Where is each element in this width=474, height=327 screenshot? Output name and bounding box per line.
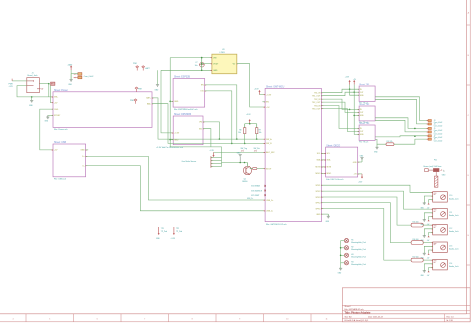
- svg-text:TP2: TP2: [176, 228, 179, 230]
- svg-text:S8050: S8050: [242, 181, 247, 183]
- junction IO0 wire: [231, 143, 233, 145]
- svg-text:IN: IN: [360, 89, 362, 91]
- sheet Power file: [54, 129, 68, 131]
- audio jack J12 body: [430, 224, 447, 234]
- svg-text:SCL: SCL: [317, 153, 321, 155]
- junction ESP32B gnd: [169, 101, 171, 103]
- svg-text:SDA: SDA: [327, 159, 331, 162]
- title block kicad: [345, 319, 369, 322]
- junction R9: [256, 138, 258, 140]
- svg-text:File: Power.sch: File: Power.sch: [54, 129, 68, 131]
- nc label 3: [251, 195, 259, 197]
- regulator U3 label: [220, 49, 225, 54]
- wire R8 bottom: [244, 134, 246, 144]
- svg-text:IN1: IN1: [199, 129, 202, 131]
- wire BAT+ to MCU SW1: [152, 98, 265, 139]
- svg-text:10k: 10k: [259, 132, 262, 134]
- wire TS2 out A: [375, 118, 428, 129]
- svg-text:Sheet: TS1: Sheet: TS1: [359, 83, 370, 86]
- connector J1 label: [28, 73, 38, 78]
- svg-text:J12: J12: [449, 228, 452, 230]
- audio jack J13 label: [449, 245, 458, 250]
- svg-text:11: 11: [325, 319, 328, 321]
- sheet MCU pin EN2: [262, 101, 269, 103]
- wire battery rail to regulator VIN: [170, 57, 212, 59]
- svg-text:Conn_01x02: Conn_01x02: [434, 133, 443, 135]
- svg-text:SW_Trig: SW_Trig: [241, 147, 248, 150]
- svg-text:+BATT: +BATT: [145, 67, 150, 70]
- svg-text:+3.3V: +3.3V: [171, 238, 176, 240]
- svg-text:9: 9: [239, 319, 241, 321]
- svg-text:GND: GND: [155, 90, 160, 92]
- resistor R9: [256, 124, 262, 135]
- sheet DECO pin +3.3V: [353, 173, 363, 183]
- sheet Power pin +5V: [51, 102, 59, 105]
- wire J2 to GND: [68, 74, 72, 86]
- svg-text:MISO: MISO: [327, 173, 332, 175]
- svg-text:MountingHole_Pad: MountingHole_Pad: [351, 256, 365, 259]
- sheet ESP32B pin EN: [201, 84, 207, 86]
- svg-text:+3.3V: +3.3V: [174, 133, 180, 135]
- svg-text:Rev: 1.0: Rev: 1.0: [447, 316, 454, 318]
- svg-text:GND: GND: [353, 162, 358, 164]
- svg-text:J8: J8: [434, 139, 436, 141]
- wire DRV VM down: [203, 122, 219, 139]
- svg-text:TS2_OUT: TS2_OUT: [312, 102, 321, 104]
- sheet Power name: [54, 89, 68, 92]
- svg-text:File: DECO-Lib.sch: File: DECO-Lib.sch: [326, 179, 343, 181]
- sheet TS1 outline and pins: [357, 83, 375, 104]
- sheet USB name: [54, 141, 66, 144]
- svg-text:OUT: OUT: [360, 92, 364, 94]
- audio jack J10 body: [430, 192, 447, 202]
- svg-text:Sheet: GMT-MCU: Sheet: GMT-MCU: [266, 86, 285, 89]
- svg-text:IN: IN: [360, 128, 362, 130]
- wire TS2 out B: [375, 120, 428, 132]
- svg-text:+5V: +5V: [427, 275, 430, 277]
- svg-text:Audio_Jack: Audio_Jack: [449, 265, 458, 268]
- svg-text:OUT: OUT: [360, 131, 364, 133]
- pwr flag 2: [142, 66, 150, 71]
- svg-text:+3.3V: +3.3V: [210, 150, 215, 152]
- sheet Power pin VIN: [51, 96, 60, 98]
- vertical GND bus left of sheets: [169, 58, 171, 147]
- svg-text:Sheet: /: Sheet: /: [345, 305, 352, 308]
- junction conn bus 2: [414, 135, 416, 137]
- junction J1 output: [48, 83, 50, 85]
- sheet DRV pin VM: [199, 121, 205, 123]
- svg-text:CHG: CHG: [54, 109, 59, 111]
- wire TS1 out A: [375, 97, 428, 121]
- junction at GND stub: [31, 96, 33, 98]
- sheet USB pin D+: [82, 156, 88, 159]
- wire +3.3V vertical rail: [350, 85, 360, 96]
- junction +5V at TS2: [353, 115, 355, 117]
- svg-text:Title: Photon Arbalete: Title: Photon Arbalete: [345, 311, 371, 314]
- audio jack J14 pwr loop: [427, 268, 433, 278]
- buzzer PZ1 resonator hatched: [435, 172, 438, 187]
- svg-text:R17 100: R17 100: [413, 256, 419, 258]
- sheet MCU pin MIC: [263, 168, 273, 170]
- svg-text:L7805: L7805: [220, 52, 225, 54]
- svg-text:R16 100: R16 100: [413, 239, 419, 241]
- audio jack J12 label: [449, 228, 458, 233]
- svg-text:MountingHole_Pad: MountingHole_Pad: [351, 241, 365, 244]
- svg-text:MOSI: MOSI: [316, 167, 321, 169]
- svg-text:SPK1: SPK1: [316, 185, 321, 187]
- connectors J3-J8 pin bodies: [426, 120, 432, 141]
- svg-text:STDBY: STDBY: [54, 115, 61, 117]
- sheet DRV file: [156, 147, 183, 149]
- svg-text:IO34 SGAIN: IO34 SGAIN: [251, 185, 261, 188]
- audio jack J10 label: [449, 195, 458, 200]
- sheet MCU pin SW1: [263, 138, 272, 141]
- svg-text:TS1_OUT: TS1_OUT: [312, 96, 321, 98]
- audio jack J10 pwr loop: [427, 200, 433, 210]
- wire J1 pin3 to PWR flag label: [39, 83, 49, 85]
- wire MCU to TS3 IN: [321, 106, 359, 129]
- svg-text:Sheet: DECO: Sheet: DECO: [326, 144, 340, 147]
- svg-text:SW_Rst: SW_Rst: [254, 147, 261, 150]
- svg-text:+3.3V Hdr Pin DRV8833-L.sch: +3.3V Hdr Pin DRV8833-L.sch: [156, 147, 183, 149]
- junction VM wire: [219, 138, 221, 140]
- svg-text:EN: EN: [201, 85, 204, 87]
- svg-text:USB_D+: USB_D+: [247, 198, 253, 200]
- svg-text:TS1_IN: TS1_IN: [314, 93, 321, 95]
- wire TS1 out B: [375, 99, 428, 124]
- svg-text:GND: GND: [156, 238, 161, 240]
- junction rail: [249, 123, 251, 125]
- sheet DRV pin IN1: [199, 128, 205, 131]
- regulator U3 body: [212, 54, 237, 73]
- sheet MCU right pins speaker group: [316, 185, 324, 216]
- ground under TS3: [374, 144, 379, 153]
- svg-text:Buzzer (smt) 12x8.5mm: Buzzer (smt) 12x8.5mm: [424, 165, 443, 168]
- wire USB D+ to MCU: [86, 156, 266, 200]
- svg-text:VIN+: VIN+: [54, 97, 59, 99]
- svg-text:TP1: TP1: [161, 228, 164, 230]
- svg-text:SPK2: SPK2: [316, 191, 321, 193]
- svg-text:SDA: SDA: [317, 159, 322, 162]
- wire Q1 collector run: [222, 162, 248, 164]
- mounting hole H1: [341, 239, 366, 244]
- svg-text:+5V: +5V: [353, 174, 357, 176]
- svg-text:D-: D-: [83, 165, 85, 167]
- audio jack J14 label: [449, 263, 458, 268]
- mounting hole H2: [341, 246, 366, 251]
- wire ESP32B EN down: [205, 85, 237, 139]
- svg-text:4.7k: 4.7k: [254, 150, 257, 152]
- wire mounting holes gnd bus: [338, 241, 343, 275]
- net label box PWR: [51, 82, 55, 86]
- svg-text:7: 7: [144, 319, 146, 321]
- wire MCU SPK to jack 4: [321, 203, 432, 245]
- svg-text:8: 8: [192, 319, 194, 321]
- svg-text:J6: J6: [434, 132, 436, 134]
- wire TS3 out B part2: [394, 139, 428, 144]
- wire cap rail: [201, 58, 203, 71]
- svg-text:J11: J11: [449, 212, 452, 214]
- audio jack J11 label: [449, 212, 458, 217]
- svg-text:GND: GND: [360, 95, 365, 97]
- svg-text:D: D: [468, 175, 470, 177]
- title block file text: [345, 308, 364, 311]
- svg-text:GND: GND: [174, 101, 179, 103]
- pwr flag on Power sheet top: [135, 87, 142, 92]
- buzzer PZ1 body: [425, 168, 446, 176]
- svg-text:MountingHole_Pad: MountingHole_Pad: [351, 248, 365, 251]
- svg-text:J4: J4: [434, 124, 436, 126]
- junction Q1 top: [244, 162, 246, 164]
- wire MCU SPK to jack 3: [321, 197, 432, 227]
- svg-text:U3: U3: [222, 49, 224, 51]
- svg-text:+5V: +5V: [266, 107, 270, 109]
- title block outline: [342, 288, 470, 322]
- junction cap mid: [201, 63, 203, 65]
- svg-text:J14: J14: [449, 263, 452, 265]
- svg-text:R12 47k: R12 47k: [387, 141, 393, 143]
- svg-text:MountingHole_Pad: MountingHole_Pad: [351, 263, 365, 266]
- connector J1 barrel jack outline: [27, 78, 40, 93]
- sheet ESP32B name: [174, 76, 190, 79]
- svg-text:TP_Pad: TP_Pad: [176, 231, 182, 233]
- sheet MCU pin ADC: [263, 151, 276, 154]
- wire MCU SPK to jack 1: [321, 185, 432, 192]
- sheet TS2 outline and pins: [357, 103, 375, 124]
- svg-text:Sheet: DRV8833: Sheet: DRV8833: [174, 113, 192, 116]
- svg-text:TP_Pad: TP_Pad: [161, 231, 167, 233]
- sheet USB pin GND stub: [80, 149, 88, 152]
- sheet Power pin STDBY: [51, 115, 61, 117]
- svg-text:C7: C7: [195, 62, 197, 64]
- svg-text:Sheet: Power: Sheet: Power: [54, 89, 68, 92]
- ground at power input: [29, 97, 34, 107]
- junction TS bundle a: [349, 88, 351, 90]
- sheet DRV name: [174, 113, 192, 116]
- connector J9 gun strike sensor: [211, 156, 214, 167]
- sheet Power pin BAT+: [146, 97, 154, 100]
- ground MCU spare pin: [321, 214, 330, 223]
- svg-text:GND: GND: [45, 121, 49, 123]
- svg-text:+3.3V: +3.3V: [246, 114, 251, 116]
- wire +5V stub TS2: [354, 114, 359, 116]
- svg-text:GND: GND: [360, 155, 364, 157]
- junction EN wire: [236, 138, 238, 140]
- wire into VIN pin: [202, 63, 212, 65]
- svg-text:GND: GND: [80, 150, 85, 152]
- connector J2 label: [84, 76, 94, 78]
- page frame outer border bottom: [0, 321, 470, 323]
- junction conn bus: [414, 128, 416, 130]
- wire junction down to Power sheet pin1: [48, 84, 50, 97]
- svg-text:Conn_01x02: Conn_01x02: [434, 141, 443, 143]
- pwr flag 1: [133, 63, 139, 70]
- svg-text:SPK3: SPK3: [316, 197, 321, 199]
- svg-text:VOUT: VOUT: [213, 64, 219, 66]
- svg-text:GND: GND: [360, 115, 365, 117]
- audio jack J10 gnd loop: [421, 196, 433, 209]
- sheet MCU pin USB D+: [263, 199, 275, 202]
- svg-text:A: A: [468, 11, 470, 14]
- svg-text:SPK5: SPK5: [316, 208, 321, 210]
- frame division ticks bottom: [26, 314, 311, 322]
- svg-text:SW_A: SW_A: [266, 138, 272, 141]
- svg-text:+3.3V: +3.3V: [345, 77, 350, 79]
- sheet DECO left pins: [323, 153, 332, 175]
- wire BAT- to MCU SW2: [152, 104, 265, 144]
- wire +3.3V rail to resistors: [245, 114, 257, 124]
- svg-text:Audio_Jack: Audio_Jack: [449, 248, 458, 251]
- nc label 1: [251, 185, 261, 188]
- svg-text:USB_D+: USB_D+: [266, 200, 274, 202]
- audio jack J14 body: [430, 259, 447, 270]
- wire sensor bus: [211, 147, 222, 167]
- power +3.3V into MCU: [254, 88, 265, 94]
- svg-text:BOOT: BOOT: [266, 168, 272, 170]
- no-connect marks: [264, 185, 266, 196]
- sheet MCU pin SW2: [263, 143, 272, 146]
- power +3.3V rail top: [345, 77, 351, 85]
- sheet ESP32B pin GND: [171, 101, 179, 103]
- svg-text:VM: VM: [199, 122, 202, 124]
- sheet DECO name: [326, 144, 340, 147]
- wire J1 pin1 to +12V: [12, 80, 27, 82]
- svg-text:4.7k: 4.7k: [241, 150, 244, 152]
- svg-text:IO25 XSMT: IO25 XSMT: [251, 195, 259, 197]
- wire ESP32B IO0 down: [205, 91, 232, 143]
- svg-text:J13: J13: [449, 245, 452, 247]
- svg-text:Audio_Jack: Audio_Jack: [449, 214, 458, 217]
- svg-text:10k: 10k: [238, 132, 241, 134]
- svg-text:D+: D+: [82, 156, 85, 158]
- svg-text:Conn_01x02: Conn_01x02: [434, 125, 443, 127]
- sheet MCU pin +3.3V: [263, 94, 272, 97]
- junction TS bundle b: [353, 91, 355, 93]
- svg-text:J3: J3: [434, 120, 436, 122]
- sheet MCU right pins DECO group: [316, 153, 326, 175]
- svg-text:TS3_IN: TS3_IN: [314, 105, 321, 107]
- svg-text:J7: J7: [434, 135, 436, 137]
- audio jack J11 gnd loop: [421, 213, 433, 226]
- wire MCU to TS2 OUT: [321, 102, 359, 112]
- nc label 2: [251, 190, 262, 192]
- sheet USB file: [54, 179, 66, 181]
- wire regulator +5V output to MCU: [237, 64, 265, 107]
- connector J2 battery: [73, 73, 82, 79]
- wire ADC sense: [214, 151, 266, 153]
- svg-text:File: ESP32B-DevKitC.sch: File: ESP32B-DevKitC.sch: [174, 108, 198, 111]
- junction mh3: [340, 255, 342, 257]
- svg-text:5: 5: [49, 319, 51, 321]
- wire MCU to TS1 IN: [321, 89, 359, 93]
- junction cap top: [201, 57, 203, 59]
- transistor Q1 label: [242, 178, 247, 183]
- title block divider rows: [342, 305, 470, 321]
- wire to Power sheet +5V pin: [50, 85, 53, 102]
- wire MCU to TS1 OUT: [321, 92, 359, 96]
- wire TS3 out B part1: [375, 139, 386, 144]
- sheet DECO outline: [326, 147, 358, 177]
- wire MCU SPK to jack 2: [321, 191, 432, 209]
- resistor R12: [386, 141, 394, 146]
- sheet USB outline: [53, 144, 86, 177]
- transistor Q1: [243, 163, 251, 175]
- svg-text:GND: GND: [213, 70, 218, 72]
- svg-text:MISO: MISO: [316, 173, 321, 175]
- svg-text:GND: GND: [174, 139, 179, 141]
- svg-text:GND: GND: [442, 175, 446, 177]
- svg-text:+5V: +5V: [54, 150, 58, 152]
- svg-text:J5: J5: [434, 128, 436, 130]
- regulator U3 pin arrows: [210, 57, 240, 71]
- sheet MCU file: [266, 224, 287, 226]
- svg-text:R15 100: R15 100: [413, 221, 419, 223]
- svg-text:J10: J10: [449, 195, 452, 197]
- junction Q1 gnd stub: [239, 162, 241, 164]
- power +3.3V on sensor wire: [210, 150, 215, 157]
- svg-text:ADC_MIC: ADC_MIC: [266, 151, 275, 154]
- svg-text:SCL: SCL: [327, 153, 331, 155]
- mounting hole H3: [341, 253, 366, 258]
- svg-text:B: B: [468, 55, 470, 57]
- svg-text:GND: GND: [326, 221, 330, 223]
- svg-text:Gun Strike Sensor: Gun Strike Sensor: [182, 160, 197, 163]
- wire +5V vertical rail: [354, 85, 359, 135]
- frame division ticks right: [467, 25, 471, 265]
- audio jack J13 body: [430, 242, 447, 252]
- svg-text:KiCad E.D.A. kicad (5.1.9)-1: KiCad E.D.A. kicad (5.1.9)-1: [345, 319, 369, 322]
- sheet ESP32B file: [174, 108, 198, 111]
- svg-text:4: 4: [12, 319, 14, 321]
- svg-text:PZ1: PZ1: [434, 160, 437, 162]
- connector J1 inner pins: [27, 80, 44, 90]
- svg-text:C: C: [468, 115, 470, 117]
- audio jack J14 gnd loop: [421, 264, 433, 277]
- svg-text:BAT+: BAT+: [146, 97, 152, 100]
- svg-text:MOSI: MOSI: [327, 167, 332, 169]
- svg-text:GND: GND: [374, 152, 378, 154]
- svg-text:File: TS.sch: File: TS.sch: [359, 141, 368, 143]
- wire regulator GND branch: [161, 69, 212, 71]
- svg-text:GND: GND: [237, 153, 241, 155]
- sheet MCU name: [266, 86, 285, 89]
- sheet MCU outline: [265, 88, 321, 221]
- svg-text:GND: GND: [338, 273, 342, 275]
- svg-text:Sheet: TS2: Sheet: TS2: [359, 103, 370, 106]
- title block rev: [447, 316, 454, 318]
- svg-text:TS2_IN: TS2_IN: [314, 99, 321, 101]
- svg-text:+5V: +5V: [54, 102, 58, 104]
- svg-text:Audio_Jack: Audio_Jack: [449, 230, 458, 233]
- svg-text:GND: GND: [360, 134, 365, 136]
- net label usb d+: [247, 198, 253, 200]
- svg-text:Size: A3: Size: A3: [345, 315, 352, 318]
- svg-text:Barrel_Jack: Barrel_Jack: [28, 74, 38, 77]
- wire USB D- to MCU: [86, 166, 266, 211]
- wire Q1 base to MCU: [257, 168, 265, 170]
- audio jack J11 pwr loop: [427, 217, 433, 227]
- audio jack J12 gnd loop: [421, 229, 433, 242]
- sheet Power outline: [53, 92, 152, 128]
- page frame outer border right: [469, 0, 471, 322]
- resistor R10 base: [250, 168, 257, 170]
- svg-text:6: 6: [97, 319, 99, 321]
- ground stub near regulator: [155, 70, 160, 91]
- vertical bus into DRV +3.3V: [161, 70, 173, 133]
- audio jack J13 pwr loop: [427, 250, 433, 260]
- power label +12V: [9, 79, 14, 88]
- svg-text:10u: 10u: [195, 65, 198, 67]
